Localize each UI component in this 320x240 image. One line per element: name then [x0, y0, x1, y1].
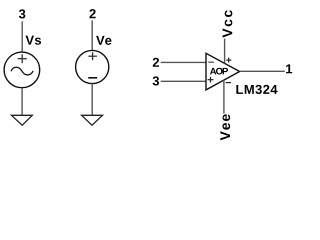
op-amp U1 triangle (LM324)	[206, 53, 240, 90]
Ve plus polarity mark	[88, 52, 97, 60]
voltage source Ve (DC) circle	[76, 50, 109, 83]
ground below Vs	[12, 115, 33, 125]
Vcc power pin wire	[224, 39, 226, 64]
pin number 3 (non-inverting input)	[153, 76, 159, 85]
wire pin 3 to op-amp non-inverting input	[161, 80, 206, 82]
voltage source Vs (AC) circle	[4, 52, 40, 88]
Vs plus polarity mark	[18, 54, 27, 63]
label Vee (rotated)	[220, 114, 230, 140]
label Ve	[96, 36, 111, 45]
minus mark at inverting input	[208, 61, 214, 63]
wire Vs bottom to ground	[21, 88, 23, 115]
label AOP inside op-amp	[210, 68, 228, 75]
label "3" node 3 (top of Vs)	[19, 9, 25, 18]
Ve minus polarity mark	[88, 77, 97, 79]
ground below Ve	[82, 115, 103, 125]
plus mark near Vcc pin	[226, 58, 231, 63]
minus mark near Vee pin	[226, 82, 231, 84]
wire Ve bottom to ground	[91, 84, 93, 115]
plus mark at non-inverting input	[208, 77, 214, 83]
wire node 3 to Vs top	[21, 21, 23, 52]
label LM324	[236, 85, 277, 94]
pin number 2 (inverting input)	[153, 58, 159, 67]
pin number 1 (output)	[286, 64, 292, 73]
output wire to pin 1	[240, 70, 285, 72]
Vs sine symbol	[11, 67, 33, 75]
label Vcc (rotated)	[223, 10, 233, 37]
Vee power pin wire	[223, 80, 225, 114]
label "2" node 2 (top of Ve)	[89, 9, 95, 18]
wire node 2 to Ve top	[91, 20, 93, 50]
wire pin 2 to op-amp inverting input	[161, 61, 206, 63]
label Vs	[25, 36, 41, 45]
